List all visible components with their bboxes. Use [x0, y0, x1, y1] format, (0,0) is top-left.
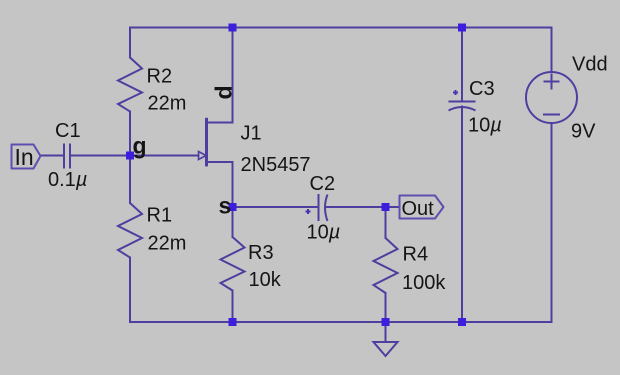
svg-text:C1: C1 — [55, 120, 81, 142]
capacitor C2 — [319, 194, 328, 221]
svg-text:In: In — [15, 144, 34, 170]
svg-text:g: g — [133, 133, 147, 159]
wire left branch upper (top rail to R2) — [129, 28, 131, 58]
svg-text:C2: C2 — [310, 173, 336, 195]
svg-text:10µ: 10µ — [307, 222, 341, 244]
svg-text:C3: C3 — [469, 78, 495, 100]
wire node Out to Out port — [386, 206, 400, 208]
node Out junction — [382, 203, 390, 211]
wire C1 to node g — [70, 155, 130, 157]
wire Vdd source to bottom rail — [551, 123, 553, 322]
resistor R2 — [118, 58, 142, 112]
plus sign of C3 — [453, 90, 458, 95]
resistor R3 — [221, 237, 245, 291]
node junction bottom ground — [382, 318, 390, 326]
wire In port to C1 — [41, 155, 65, 157]
wire R1 to bottom rail — [129, 258, 131, 323]
transistor J1 (JFET) — [199, 118, 233, 167]
svg-text:J1: J1 — [241, 123, 262, 145]
port In — [12, 145, 41, 169]
wire R3 to bottom rail — [232, 291, 234, 323]
capacitor C3 — [449, 102, 476, 111]
svg-text:s: s — [219, 193, 232, 219]
wire bottom rail to ground — [385, 322, 387, 342]
svg-text:22m: 22m — [148, 93, 187, 115]
node s junction — [229, 203, 237, 211]
wire C3 to bottom rail — [461, 107, 463, 323]
resistor R1 — [118, 203, 142, 258]
wire source of J1 to node s — [232, 162, 234, 207]
node junction bottom C3 — [458, 318, 466, 326]
svg-text:22m: 22m — [148, 233, 187, 255]
wire top rail to C3 — [461, 28, 463, 102]
svg-text:Vdd: Vdd — [572, 54, 608, 76]
ground — [374, 342, 398, 356]
svg-text:9V: 9V — [571, 121, 596, 143]
svg-text:2N5457: 2N5457 — [241, 154, 311, 176]
svg-text:R2: R2 — [147, 66, 173, 88]
svg-text:d: d — [211, 85, 237, 99]
wire R2 to node g — [129, 112, 131, 156]
wire top rail to Vdd source — [551, 28, 553, 73]
wire node g to R1 — [129, 156, 131, 204]
wire node s to C2 — [233, 206, 317, 208]
wire node g to gate of J1 — [130, 155, 199, 157]
svg-text:Out: Out — [402, 198, 435, 220]
plus sign of C2 — [306, 209, 311, 214]
svg-text:R4: R4 — [403, 244, 429, 266]
resistor R4 — [374, 238, 398, 293]
capacitor C1 — [64, 144, 70, 169]
wire node Out to R4 — [385, 207, 387, 238]
svg-text:100k: 100k — [402, 272, 446, 294]
svg-text:10µ: 10µ — [468, 115, 502, 137]
node junction top C3 — [458, 24, 466, 32]
wire drain of J1 to top rail — [232, 28, 234, 123]
svg-text:R3: R3 — [248, 242, 274, 264]
node junction top drain — [229, 24, 237, 32]
wire C2 to node Out — [327, 206, 386, 208]
voltage source Vdd — [526, 72, 577, 123]
svg-text:0.1µ: 0.1µ — [48, 169, 87, 191]
svg-text:R1: R1 — [147, 205, 173, 227]
wire R4 to bottom rail — [385, 293, 387, 322]
wire top rail — [130, 27, 552, 29]
wire node s to R3 — [232, 207, 234, 237]
wire bottom rail — [130, 321, 552, 323]
node g junction — [126, 152, 134, 160]
node junction bottom R3 — [229, 318, 237, 326]
port Out — [400, 196, 444, 219]
svg-text:10k: 10k — [249, 269, 282, 291]
